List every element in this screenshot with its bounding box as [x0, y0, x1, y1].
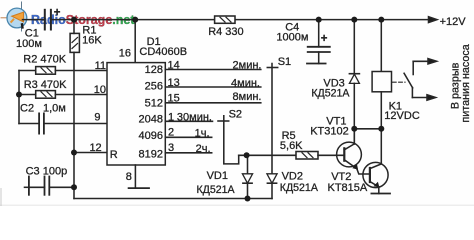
svg-text:5,6K: 5,6K	[280, 140, 303, 152]
svg-text:+: +	[54, 7, 61, 19]
ground C4	[307, 63, 326, 65]
svg-text:15: 15	[168, 93, 180, 105]
capacitor C1	[44, 10, 46, 30]
svg-text:R2 470K: R2 470K	[23, 54, 66, 66]
svg-text:10: 10	[94, 84, 106, 96]
node top rail C4	[316, 17, 322, 23]
svg-text:KT815A: KT815A	[328, 182, 368, 194]
svg-text:11: 11	[95, 60, 106, 72]
wire pin3 row	[165, 152, 211, 154]
svg-text:256: 256	[145, 81, 163, 93]
wire pin16 drop	[134, 20, 136, 63]
node VD1 top	[244, 152, 250, 158]
relay K1 coil	[380, 20, 382, 72]
resistor R3	[19, 94, 36, 96]
diode VD1	[247, 155, 249, 174]
svg-text:1,0м: 1,0м	[43, 103, 66, 115]
svg-text:КД521А: КД521А	[280, 182, 319, 194]
wire base row to R5	[239, 154, 296, 156]
svg-text:+: +	[321, 33, 328, 45]
diode VD2	[267, 174, 277, 183]
wire pin2 row	[165, 136, 211, 138]
svg-text:8мин.: 8мин.	[233, 91, 262, 103]
svg-text:14: 14	[168, 60, 180, 72]
diode VD3	[353, 20, 355, 74]
svg-text:13: 13	[168, 77, 180, 89]
capacitor C4	[318, 20, 320, 47]
svg-text:S2: S2	[229, 108, 242, 120]
svg-text:16: 16	[119, 48, 131, 60]
wire pin15 row	[165, 102, 260, 104]
transistor VT1	[337, 142, 362, 167]
svg-text:R4 330: R4 330	[208, 26, 243, 38]
svg-text:VD2: VD2	[282, 171, 303, 183]
node C3	[71, 184, 77, 190]
svg-text:CD4060B: CD4060B	[139, 46, 187, 58]
svg-text:3: 3	[168, 142, 174, 154]
svg-text:КД521А: КД521А	[311, 87, 350, 99]
svg-text:4096: 4096	[139, 130, 163, 142]
svg-text:VD1: VD1	[207, 170, 228, 182]
svg-text:2: 2	[168, 127, 174, 139]
svg-text:9: 9	[94, 112, 100, 124]
svg-text:12: 12	[89, 142, 101, 154]
scan edge shading	[0, 205, 474, 207]
wire pin12	[74, 152, 107, 154]
svg-text:питания насоса: питания насоса	[460, 44, 472, 122]
wire pin8 / ground	[134, 165, 136, 188]
svg-text:8: 8	[126, 171, 132, 183]
resistor R5	[296, 152, 318, 160]
svg-text:128: 128	[145, 64, 163, 76]
node left rail R3	[16, 92, 22, 98]
wire collector node	[354, 128, 381, 130]
node top rail VD3	[351, 17, 357, 23]
svg-text:12VDC: 12VDC	[384, 110, 420, 122]
svg-text:512: 512	[145, 97, 163, 109]
node pin12	[71, 150, 77, 156]
node top rail K1	[378, 17, 384, 23]
svg-text:30мин.: 30мин.	[177, 111, 212, 123]
svg-text:1000м: 1000м	[276, 32, 308, 44]
node collector K1	[378, 126, 384, 132]
wire top rail	[23, 19, 45, 21]
relay contact K1	[413, 60, 428, 62]
resistor R1	[70, 33, 79, 52]
wire pin13 row	[165, 86, 260, 88]
svg-text:S1: S1	[278, 56, 291, 68]
svg-text:C2: C2	[20, 103, 34, 115]
svg-text:КД521А: КД521А	[197, 184, 236, 196]
+12V arrow	[429, 17, 438, 23]
svg-text:+12V: +12V	[440, 16, 467, 28]
wire R1 vertical / reset net	[73, 20, 75, 34]
svg-text:1ч.: 1ч.	[195, 127, 210, 139]
svg-text:KT3102: KT3102	[310, 126, 349, 138]
capacitor C2	[19, 123, 39, 125]
svg-text:2048: 2048	[139, 114, 163, 126]
resistor R2	[19, 70, 36, 72]
wire left rail	[18, 71, 20, 124]
wire bottom rail	[74, 198, 272, 200]
ground VT2	[371, 193, 390, 195]
wire pin14 row	[165, 69, 260, 71]
switch S1	[267, 67, 277, 69]
switch S2	[218, 120, 229, 122]
op-amp U1 / IC D1 CD4060B box	[107, 63, 165, 165]
svg-text:2мин.: 2мин.	[233, 59, 262, 71]
svg-text:100м: 100м	[16, 38, 42, 50]
node top rail pin16	[132, 17, 138, 23]
svg-text:1: 1	[168, 111, 174, 123]
node collector VD3	[351, 126, 357, 132]
wire pin1 row	[165, 120, 212, 122]
node top rail R1	[71, 17, 77, 23]
resistor R4	[215, 16, 235, 23]
svg-text:R: R	[110, 149, 118, 161]
node VD1 bottom	[245, 196, 251, 202]
svg-text:C3 100p: C3 100p	[26, 166, 68, 178]
svg-text:2ч.: 2ч.	[196, 143, 211, 155]
logo watermark RadioStorage.net	[1, 2, 136, 32]
svg-text:16K: 16K	[82, 34, 102, 46]
capacitor C3	[25, 186, 29, 188]
transistor VT2	[363, 162, 388, 187]
svg-text:8192: 8192	[139, 149, 163, 161]
svg-text:R3 470K: R3 470K	[24, 79, 67, 91]
svg-text:4мин.: 4мин.	[231, 78, 260, 90]
